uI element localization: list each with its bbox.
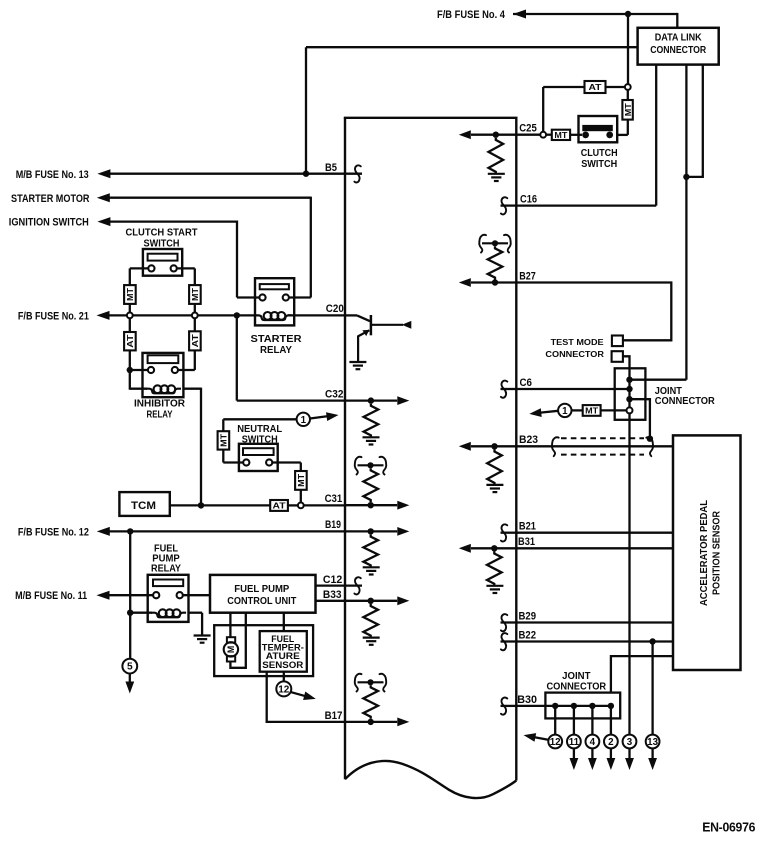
wire: B30 external to bottom joint connector bbox=[516, 705, 611, 707]
resistor at C32 bbox=[364, 404, 379, 438]
ECM left edge bbox=[344, 118, 346, 779]
svg-text:MT: MT bbox=[125, 287, 135, 301]
wire: AT box to MT terminal bbox=[606, 86, 625, 88]
svg-text:DATA LINK: DATA LINK bbox=[655, 33, 703, 44]
wire: C12 from control unit to ECM bbox=[316, 584, 346, 586]
junction coil branch bbox=[127, 610, 133, 616]
wire: joint connector pin1 to DLC lead bbox=[630, 379, 687, 381]
svg-text:3: 3 bbox=[627, 737, 633, 748]
svg-text:11: 11 bbox=[569, 737, 580, 748]
node C32 internal arrow bbox=[345, 399, 397, 401]
wire: B31 external to accel pedal sensor bbox=[516, 547, 673, 549]
sensor: ACCELERATOR PEDAL POSITION SENSOR box bbox=[673, 435, 741, 670]
terminal open circle pin 4 bbox=[627, 407, 633, 413]
terminal: C25 open circle bbox=[540, 132, 546, 138]
svg-text:AT: AT bbox=[125, 334, 135, 348]
box AT on TCM wire bbox=[270, 500, 288, 511]
svg-text:2: 2 bbox=[608, 737, 614, 748]
test point circle 2 bbox=[604, 735, 618, 749]
test point circle 1 (right) bbox=[558, 404, 571, 417]
break symbol on B5 bbox=[354, 165, 360, 182]
connector U2: JOINT CONNECTOR (right) bbox=[615, 368, 646, 420]
wire: TCM to ECM C31 bbox=[170, 504, 270, 506]
svg-text:MT: MT bbox=[219, 433, 229, 447]
svg-text:SENSOR: SENSOR bbox=[262, 659, 303, 670]
ground: fuel pump relay coil bbox=[194, 634, 211, 636]
svg-text:STARTER MOTOR: STARTER MOTOR bbox=[11, 193, 90, 205]
wire: B27 external to test mode connector bbox=[516, 283, 671, 341]
pigtail at B27 resistor top bbox=[482, 242, 508, 244]
svg-text:CONNECTOR: CONNECTOR bbox=[546, 681, 606, 693]
svg-text:13: 13 bbox=[647, 737, 658, 748]
svg-text:TCM: TCM bbox=[131, 500, 156, 512]
ground at B23 resistor bbox=[486, 484, 503, 486]
box MT neutral left bbox=[218, 431, 230, 449]
resistor at B31 bbox=[487, 552, 502, 586]
resistor at B23 bbox=[487, 450, 502, 485]
node B31 internal arrow bbox=[471, 547, 516, 549]
svg-text:F/B FUSE No. 4: F/B FUSE No. 4 bbox=[437, 9, 506, 21]
wire: F/B FUSE No.21 rail to ECM C20 bbox=[106, 314, 257, 316]
wire: B22 drop to circle 13 bbox=[651, 642, 653, 735]
svg-text:1: 1 bbox=[301, 415, 307, 426]
junction C32 branch on F/B21 rail bbox=[234, 312, 240, 318]
ECM top edge bbox=[344, 117, 518, 119]
unit TCM box bbox=[119, 492, 169, 516]
junction C25 pulldown bbox=[493, 132, 499, 138]
test point circle 11 bbox=[567, 735, 581, 749]
wire: B22 external to accel pedal sensor bbox=[516, 640, 673, 642]
svg-text:B21: B21 bbox=[519, 521, 536, 533]
svg-text:EN-06976: EN-06976 bbox=[702, 820, 755, 835]
wire: C32 branch down and into ECM bbox=[236, 315, 238, 400]
terminal: F/B21 left open circle bbox=[127, 313, 133, 319]
svg-text:RELAY: RELAY bbox=[260, 344, 292, 356]
wire: F/B FUSE No.12 rail to ECM B19 bbox=[107, 530, 346, 532]
resistor at B17 bbox=[363, 685, 378, 718]
junction B19 pulldown bbox=[368, 528, 374, 534]
wire: top F/B FUSE No.4 feed line bbox=[513, 13, 677, 15]
svg-text:MT: MT bbox=[585, 406, 599, 416]
svg-text:M/B FUSE No. 11: M/B FUSE No. 11 bbox=[15, 590, 87, 602]
svg-text:ACCELERATOR PEDAL: ACCELERATOR PEDAL bbox=[699, 500, 710, 606]
wire: control unit to fuel temp sensor bbox=[283, 613, 285, 631]
wire: B29 external to accel pedal sensor bbox=[516, 621, 673, 623]
svg-text:12: 12 bbox=[550, 737, 561, 748]
junction C32 pulldown bbox=[368, 397, 374, 403]
svg-text:CONNECTOR: CONNECTOR bbox=[650, 45, 707, 56]
arrow from circle 1 left bbox=[541, 411, 559, 413]
svg-text:B31: B31 bbox=[518, 536, 535, 548]
wire: clutch start switch right pin drop bbox=[177, 267, 195, 269]
svg-text:F/B FUSE No. 12: F/B FUSE No. 12 bbox=[18, 526, 89, 538]
test point circle 4 bbox=[586, 735, 600, 749]
svg-text:C12: C12 bbox=[323, 574, 342, 586]
svg-text:CONNECTOR: CONNECTOR bbox=[545, 349, 604, 359]
terminal: C31 open circle bbox=[298, 503, 304, 509]
svg-text:RELAY: RELAY bbox=[151, 563, 181, 575]
wire: STARTER MOTOR lead bbox=[107, 197, 311, 199]
test point circle 13 bbox=[646, 735, 660, 749]
svg-text:CONTROL UNIT: CONTROL UNIT bbox=[227, 595, 297, 607]
svg-text:CONNECTOR: CONNECTOR bbox=[655, 395, 715, 407]
junction on F/B FUSE No.4 line bbox=[625, 11, 631, 17]
sensor: FUEL TEMPERATURE SENSOR box bbox=[260, 631, 307, 672]
node C31 internal arrow bbox=[345, 504, 397, 506]
pigtail at B17 resistor top bbox=[358, 681, 384, 683]
relay K1: STARTER RELAY bbox=[255, 278, 294, 325]
wire: branch from F/B fuse 4 to AT terminal bbox=[627, 14, 629, 84]
svg-text:M/B FUSE No. 13: M/B FUSE No. 13 bbox=[16, 169, 89, 181]
junction C31 pullup bbox=[368, 502, 374, 508]
node B33 internal arrow bbox=[345, 600, 397, 602]
wire C16 stub with break bbox=[501, 204, 517, 206]
wire: relay contact to control unit bbox=[183, 594, 210, 596]
svg-text:B30: B30 bbox=[517, 694, 537, 706]
svg-text:C25: C25 bbox=[519, 123, 537, 135]
wire: joint connector pin3 to shield bbox=[630, 399, 650, 439]
ground at B31 resistor bbox=[486, 585, 503, 587]
wire: DLC pin down to joint connector bbox=[685, 65, 687, 380]
wire: AT branch riser bbox=[542, 87, 544, 132]
wire: B5 stub inside ECM bbox=[345, 173, 362, 175]
wire B29 stub with break bbox=[501, 621, 517, 623]
svg-text:1: 1 bbox=[562, 406, 568, 417]
svg-text:B23: B23 bbox=[519, 434, 538, 446]
junction inhibitor pin feed bbox=[127, 367, 133, 373]
wire: neutral switch right pin to C31 terminal bbox=[272, 461, 301, 463]
arrow from circle 1 toward ECM bbox=[310, 416, 330, 419]
svg-text:M: M bbox=[226, 646, 236, 653]
resistor at C25 bbox=[488, 138, 503, 174]
relay K2: INHIBITOR RELAY bbox=[143, 353, 184, 397]
junction B33 pulldown bbox=[368, 598, 374, 604]
wire: DLC pin to C16 branch bbox=[655, 65, 657, 206]
svg-text:MT: MT bbox=[190, 287, 200, 301]
box AT right column bbox=[189, 331, 201, 350]
svg-text:AT: AT bbox=[190, 333, 200, 347]
svg-text:C20: C20 bbox=[326, 303, 344, 315]
wire: MT link to circle 1 (right) bbox=[601, 409, 627, 411]
svg-text:B22: B22 bbox=[519, 629, 537, 641]
svg-text:MT: MT bbox=[554, 130, 568, 140]
svg-text:B17: B17 bbox=[325, 710, 343, 722]
svg-text:12: 12 bbox=[278, 684, 290, 695]
arrow from circle 12 to ECM bbox=[534, 737, 549, 740]
ground at B19 resistor bbox=[363, 566, 380, 568]
svg-text:MT: MT bbox=[623, 103, 633, 117]
wire: pin drops to circles bbox=[554, 706, 556, 735]
wire: C16 external run to DLC bbox=[516, 204, 656, 206]
wire: AT to inhibitor relay bbox=[129, 350, 131, 389]
ECM right edge bbox=[515, 118, 517, 781]
node B19 internal arrow bbox=[345, 530, 397, 532]
junction B22 to circle 13 bbox=[649, 638, 655, 644]
node B17 internal arrow bbox=[345, 721, 397, 723]
unit: FUEL PUMP CONTROL UNIT bbox=[210, 575, 316, 613]
wire: M/B FUSE No.13 to ECM B5 bbox=[107, 173, 345, 175]
wire: C6 external to joint connector bbox=[516, 388, 629, 390]
terminal: F/B21 right open circle bbox=[192, 313, 198, 319]
ground at B33 resistor bbox=[363, 636, 380, 638]
junction B17 pullup bbox=[368, 719, 374, 725]
junction fuel pump relay coil feed bbox=[127, 528, 133, 534]
svg-text:B27: B27 bbox=[519, 270, 536, 282]
junction B31 pulldown bbox=[491, 545, 497, 551]
joint connector pins bbox=[626, 377, 632, 383]
junction B27 pullup bbox=[492, 279, 498, 285]
wire: fuel temp sensor to ECM B17 bbox=[267, 672, 345, 722]
node B23 internal arrow bbox=[471, 445, 516, 447]
svg-text:C6: C6 bbox=[520, 377, 533, 389]
terminal: open circle above MT bbox=[625, 84, 631, 90]
svg-text:FUEL PUMP: FUEL PUMP bbox=[234, 583, 289, 595]
wire: B33 from control unit to ECM bbox=[316, 600, 346, 602]
wire C6 stub with break bbox=[501, 388, 517, 390]
arrow below circle 5 bbox=[129, 674, 131, 684]
wire: neutral switch left pin to test circle 1 bbox=[223, 461, 243, 463]
arrow from circle 12 to B17 path bbox=[291, 692, 306, 696]
test point circle 1 (left) bbox=[297, 413, 310, 426]
junction B23 pulldown bbox=[491, 443, 497, 449]
wire B21 stub with break bbox=[501, 532, 517, 534]
svg-text:MT: MT bbox=[296, 473, 306, 487]
svg-text:SWITCH: SWITCH bbox=[144, 237, 180, 249]
test point circle 3 bbox=[623, 735, 637, 749]
svg-text:AT: AT bbox=[589, 82, 603, 92]
junction TCM rail bbox=[198, 502, 204, 508]
wire: inhibitor coil to TCM rail bbox=[183, 388, 201, 390]
ground at C25 resistor bbox=[488, 173, 505, 175]
svg-text:5: 5 bbox=[127, 662, 133, 673]
ground at transistor emitter bbox=[349, 361, 366, 363]
resistor at B27 bbox=[488, 246, 503, 279]
test point circle 12 (fuel temp) bbox=[276, 681, 291, 696]
pigtail at C31 resistor top bbox=[358, 464, 384, 466]
svg-text:C31: C31 bbox=[325, 493, 343, 505]
box MT at joint connector bbox=[583, 405, 601, 416]
test point circle 5 bbox=[122, 659, 137, 674]
wire: DLC third pin jog bbox=[686, 65, 702, 177]
svg-text:TEST MODE: TEST MODE bbox=[551, 337, 604, 347]
svg-text:B19: B19 bbox=[325, 519, 341, 531]
node C25 internal arrow bbox=[471, 134, 516, 136]
switch S1: CLUTCH SWITCH bbox=[579, 116, 618, 142]
svg-text:POSITION SENSOR: POSITION SENSOR bbox=[711, 510, 722, 595]
svg-text:F/B FUSE No. 21: F/B FUSE No. 21 bbox=[18, 310, 89, 322]
junction B5 branch bbox=[303, 171, 309, 177]
wire: sensor stub to circle 12 bbox=[283, 672, 285, 682]
box MT on C25 wire bbox=[552, 130, 570, 140]
bottom joint connector pins bbox=[552, 703, 558, 709]
connector U1: DATA LINK CONNECTOR box bbox=[638, 28, 719, 65]
wire: M/B FUSE No.11 to relay bbox=[106, 594, 153, 596]
junction on DLC down-lead bbox=[683, 174, 689, 180]
arrows below bottom circles bbox=[573, 748, 575, 760]
svg-text:4: 4 bbox=[590, 737, 596, 748]
svg-text:C16: C16 bbox=[520, 194, 537, 206]
svg-text:IGNITION SWITCH: IGNITION SWITCH bbox=[9, 217, 89, 229]
wire B22 stub with break bbox=[501, 640, 517, 642]
junction shield drain bbox=[647, 436, 653, 442]
test point circle 12 (bottom) bbox=[548, 735, 562, 749]
svg-text:SWITCH: SWITCH bbox=[581, 158, 617, 170]
wire: DLC to main harness (horizontal upper) bbox=[306, 46, 638, 48]
wire: relay coil right to ground bbox=[189, 612, 203, 614]
node B27 internal arrow bbox=[471, 281, 516, 283]
joint connector pin column bbox=[628, 368, 630, 734]
wire: relay coil left lead bbox=[130, 612, 152, 614]
box MT right column bbox=[189, 285, 201, 304]
box AT left column bbox=[124, 332, 136, 350]
wire: B21 external to accel pedal sensor bbox=[516, 532, 673, 534]
wire: B23 external to accel pedal sensor bbox=[516, 445, 673, 447]
box MT neutral right bbox=[295, 471, 307, 490]
box: fuel pump assembly enclosure bbox=[214, 625, 313, 676]
wire: MT drop to clutch switch bbox=[627, 90, 629, 100]
svg-text:RELAY: RELAY bbox=[147, 409, 173, 421]
ground at C32 resistor bbox=[363, 436, 380, 438]
svg-text:B5: B5 bbox=[325, 162, 337, 174]
resistor at B19 bbox=[363, 535, 378, 568]
wire B30 stub with break bbox=[501, 705, 517, 707]
resistor at B33 bbox=[363, 604, 378, 638]
motor M1: fuel pump motor bbox=[227, 637, 235, 642]
wire: C25 stub to terminal bbox=[516, 134, 540, 136]
transistor Q1 at C20 bbox=[345, 314, 357, 316]
resistor at C31 bbox=[363, 468, 378, 502]
wire: control unit to pump motor bbox=[229, 613, 231, 638]
box MT vertical at clutch switch bbox=[622, 100, 632, 120]
wire: sensor low ref to bottom joint connector bbox=[611, 656, 673, 693]
wire: IGNITION SWITCH lead bbox=[107, 220, 237, 222]
svg-text:B33: B33 bbox=[323, 589, 342, 601]
box AT (clutch start cancel) bbox=[585, 81, 606, 93]
wire C12 stub with break bbox=[345, 584, 362, 586]
svg-text:C32: C32 bbox=[325, 388, 343, 400]
box MT left column bbox=[124, 285, 136, 304]
svg-text:AT: AT bbox=[273, 501, 287, 511]
wire: pump motor return bbox=[230, 613, 245, 668]
ECM torn bottom wave bbox=[345, 761, 516, 798]
wire: lower test square to joint connector bbox=[623, 356, 630, 368]
wire: right AT to inhibitor pin bbox=[194, 350, 196, 370]
wire: clutch start switch left pin drop bbox=[130, 267, 149, 269]
wire: C25 terminal to MT box bbox=[546, 134, 552, 136]
svg-text:B29: B29 bbox=[519, 610, 537, 622]
shielded pair dashed oval bbox=[561, 437, 644, 439]
wire: coil feed drop to circle 5 bbox=[129, 531, 131, 658]
